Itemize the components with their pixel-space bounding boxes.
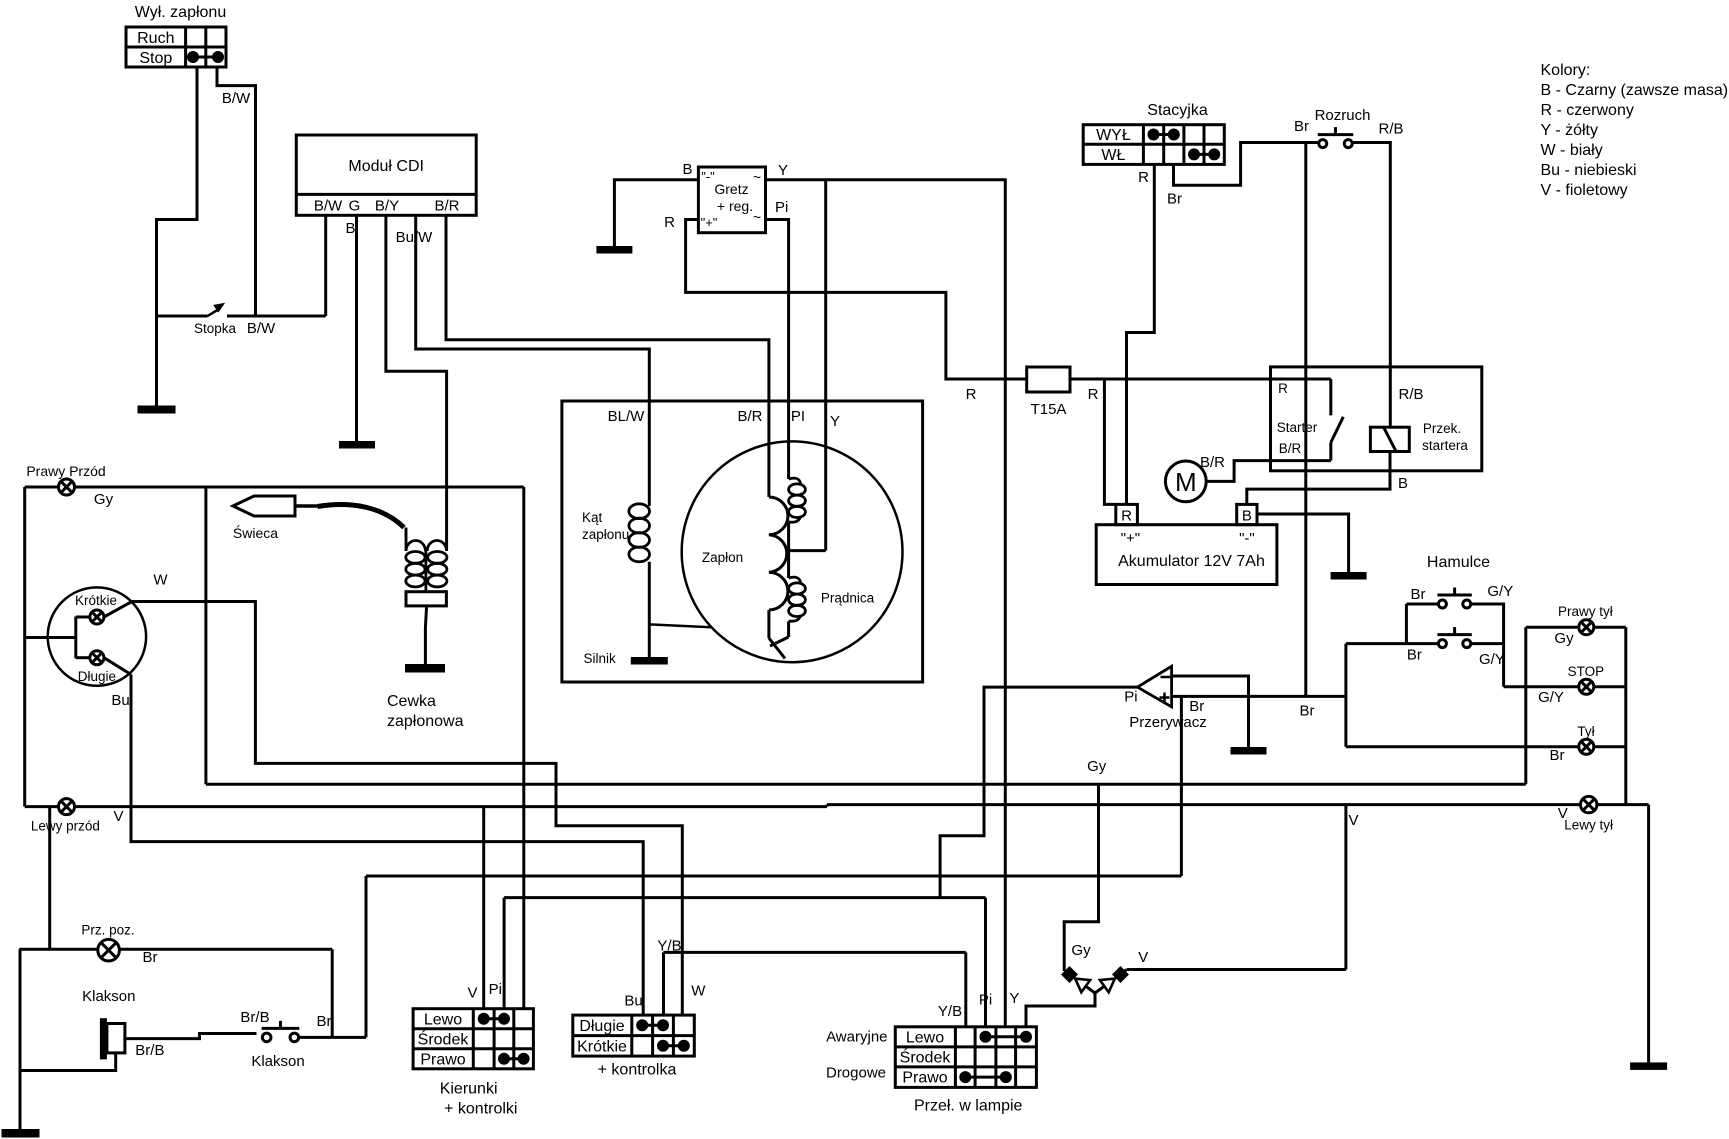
svg-text:Prawo: Prawo [902, 1070, 947, 1087]
svg-text:Rozruch: Rozruch [1315, 107, 1371, 124]
label Gy [1087, 758, 1107, 775]
wire Br plus drop to horn run [1180, 696, 1183, 876]
svg-text:Pi: Pi [775, 199, 788, 216]
label V [1348, 812, 1358, 829]
wire Bu high beam to switch table [131, 675, 643, 1016]
label V [1138, 949, 1148, 966]
relay coil K1 [1370, 427, 1409, 451]
svg-text:Zapłon: Zapłon [702, 550, 743, 565]
label G/Y [1538, 689, 1564, 706]
wire cable to coil [405, 528, 408, 542]
switch S1 Wył. zapłonu (Ruch/Stop table) [126, 27, 226, 67]
lamp E4 Lewy przód [59, 799, 75, 815]
svg-text:+ kontrolki: + kontrolki [444, 1101, 517, 1118]
svg-text:Y/B: Y/B [938, 1003, 962, 1020]
label Prawy Przód [26, 463, 105, 479]
svg-text:B/W: B/W [247, 320, 276, 337]
svg-text:R: R [1121, 508, 1132, 525]
coil L3 Prądnica upper [789, 478, 806, 522]
wire Pi flasher output [940, 687, 1137, 898]
contacts Krótkie row [657, 1040, 690, 1052]
label Prawy tył [1558, 604, 1613, 619]
svg-text:Prądnica: Prądnica [821, 591, 875, 606]
svg-text:PI: PI [791, 408, 805, 425]
svg-text:Tył: Tył [1577, 724, 1594, 739]
magneto flywheel circle [682, 441, 903, 662]
wire Gy front top run [25, 486, 524, 489]
svg-text:Br: Br [1407, 647, 1422, 664]
wire Br down to przerywacz plus [1304, 143, 1307, 697]
label Tył [1577, 724, 1594, 739]
coil L2 Zapłon source [769, 497, 788, 610]
lamp E9 Lewy tył [1581, 796, 1597, 812]
wire Br link sw1 to sw2 [1406, 604, 1438, 644]
ground bottom left [2, 1129, 40, 1138]
svg-text:Br: Br [317, 1013, 332, 1030]
diode D2 [1095, 966, 1129, 993]
wire BL/W below pickup to ground [648, 562, 651, 657]
switch S9 Przeł. w lampie table [895, 1027, 1036, 1088]
svg-text:Lewy tył: Lewy tył [1564, 818, 1613, 833]
label Świeca [233, 524, 278, 541]
contacts kierunki Prawo [498, 1053, 530, 1065]
wire headlight lamp outputs [104, 602, 132, 675]
wire horn to switch [125, 1034, 257, 1039]
wire B/R motor to relay contact [1206, 461, 1331, 482]
svg-text:Br: Br [1167, 191, 1182, 208]
relay K1 Przek. startera box [1271, 367, 1482, 471]
label B [682, 161, 692, 178]
label Y/B [657, 938, 681, 955]
svg-text:+ kontrolka: + kontrolka [598, 1062, 677, 1079]
svg-text:M: M [1175, 467, 1197, 497]
svg-text:Krótkie: Krótkie [577, 1039, 627, 1056]
wire V long run [25, 805, 1649, 807]
labels Bu W [624, 983, 706, 1010]
svg-text:Akumulator 12V 7Ah: Akumulator 12V 7Ah [1118, 553, 1265, 570]
switch S4 Klakson pushbutton [262, 1021, 300, 1042]
switch S7 Kierunki table [413, 1009, 533, 1069]
svg-text:WYŁ: WYŁ [1096, 127, 1131, 144]
svg-text:Ruch: Ruch [137, 30, 174, 47]
relay contact upper lead [1329, 379, 1332, 415]
wire spine between generator coils [787, 522, 790, 578]
wire B/W from S1 to ground/stopka [157, 67, 198, 406]
svg-text:Bu - niebieski: Bu - niebieski [1541, 162, 1637, 179]
svg-text:Br: Br [1294, 118, 1309, 135]
wire CDI pin B/Y to ignition coil [386, 215, 447, 550]
label T15A R R [966, 386, 1099, 418]
svg-text:Br/B: Br/B [135, 1042, 164, 1059]
svg-text:+ reg.: + reg. [717, 198, 753, 214]
wire B battery minus to ground [1257, 514, 1349, 572]
switch S3 Rozruch pushbutton [1318, 127, 1354, 148]
svg-text:Prawy Przód: Prawy Przód [26, 463, 105, 479]
wire left down to ground [19, 949, 22, 1129]
switch S5 brake front [1437, 588, 1471, 609]
label Silnik [584, 651, 617, 666]
switch S2 WYŁ contacts [1148, 129, 1180, 141]
ground bottom right [1630, 1062, 1667, 1070]
svg-text:G: G [349, 198, 361, 215]
wire rear lamps return [1624, 627, 1627, 804]
legend Kolory [1541, 62, 1729, 199]
labels Pi Przerywacz [1124, 689, 1207, 732]
wire Pi to kierunki table [503, 898, 506, 1009]
svg-text:zapłonu: zapłonu [582, 527, 629, 542]
switch S1 Stop contacts closed [187, 51, 224, 63]
svg-text:startera: startera [1422, 438, 1468, 453]
wire Pi to lamp switch table [984, 898, 987, 1027]
label B [1398, 475, 1408, 492]
svg-text:Przeł. w lampie: Przeł. w lampie [914, 1098, 1023, 1115]
wire coil to ground [425, 606, 426, 664]
svg-text:W: W [691, 983, 706, 1000]
wire headlight common feed [25, 617, 90, 659]
svg-text:Drogowe: Drogowe [826, 1065, 886, 1082]
svg-text:"+": "+" [701, 215, 718, 230]
labels Zapłon Prądnica [702, 550, 875, 606]
svg-text:Prawy tył: Prawy tył [1558, 604, 1613, 619]
label Bu [111, 692, 129, 709]
label Lewy przód [31, 819, 100, 834]
svg-text:STOP: STOP [1568, 664, 1605, 679]
wire CDI pin B/W down [324, 215, 327, 316]
svg-text:Kolory:: Kolory: [1541, 62, 1591, 79]
labels V Pi [467, 981, 501, 1002]
svg-text:Gy: Gy [1087, 758, 1107, 775]
ground at stopka wire [138, 406, 176, 414]
diode D1 [1061, 966, 1095, 993]
svg-text:Wył. zapłonu: Wył. zapłonu [135, 4, 226, 21]
wire Y from Gretz to lamp switch [766, 180, 1006, 1027]
svg-text:Lewy przód: Lewy przód [31, 819, 100, 834]
wire Br stacyjka to rozruch [1174, 143, 1318, 186]
svg-text:Br: Br [1189, 698, 1204, 715]
label Br [1550, 747, 1565, 764]
wire stopka horizontal B/W [157, 315, 326, 318]
label Prz. poz. [81, 923, 134, 938]
svg-text:Stopka: Stopka [194, 321, 237, 336]
ground at ignition coil [405, 664, 445, 673]
wire CDI pin Bu/W to pickup BL/W [416, 215, 650, 503]
wire Br long run to przerywacz [366, 875, 1181, 878]
switch S2 WŁ contacts [1188, 148, 1220, 160]
label Klakson [82, 988, 135, 1005]
ground at CDI G [339, 441, 375, 449]
wire R from fuse to starter relay [1070, 378, 1331, 381]
svg-text:zapłonowa: zapłonowa [387, 713, 464, 730]
ground Silnik [631, 657, 668, 665]
svg-text:Moduł CDI: Moduł CDI [348, 158, 424, 175]
ground at Gretz minus [596, 246, 632, 254]
labels Br Br [1189, 698, 1314, 720]
svg-text:B/Y: B/Y [375, 198, 399, 215]
svg-text:B: B [345, 220, 355, 237]
svg-text:Przek.: Przek. [1423, 421, 1461, 436]
label Y [778, 162, 788, 179]
svg-text:Gy: Gy [94, 491, 114, 508]
switch Stopka (side-stand) blade [207, 304, 224, 317]
wire B relay coil to battery minus [1247, 452, 1390, 505]
label Kąt zapłonu [582, 510, 629, 542]
svg-text:B/W: B/W [222, 90, 251, 107]
svg-text:Środek: Środek [900, 1048, 952, 1067]
svg-text:Prz. poz.: Prz. poz. [81, 923, 134, 938]
battery BT1 Akumulator 12V 7Ah [1096, 504, 1277, 584]
coil L4 Prądnica lower [789, 577, 806, 621]
svg-text:R - czerwony: R - czerwony [1541, 102, 1634, 119]
wire V to kierunki table [482, 807, 485, 1009]
label V [113, 808, 123, 825]
flasher U3 Przerywacz triangle [1137, 666, 1171, 707]
wire Gy long bottom run [206, 783, 1526, 786]
horn LS1 Klakson speaker [100, 1018, 125, 1059]
wire B/R below Zapłon coil to flywheel [769, 610, 785, 659]
label + kontrolka [598, 1062, 677, 1079]
wire G/Y brake outputs [1471, 604, 1504, 687]
svg-text:Długie: Długie [78, 669, 116, 684]
svg-text:V: V [1348, 812, 1358, 829]
svg-text:R/B: R/B [1398, 386, 1423, 403]
wire Gy riser [1524, 627, 1527, 784]
svg-text:Lewo: Lewo [906, 1030, 944, 1047]
wire Br feed brakes [1346, 644, 1438, 747]
label Gy [1554, 630, 1574, 647]
svg-text:R: R [1138, 169, 1149, 186]
svg-text:Starter: Starter [1277, 420, 1318, 435]
svg-text:"-": "-" [701, 169, 715, 184]
contacts lamp switch Prawo [959, 1071, 1012, 1083]
contacts lamp switch Lewo [980, 1031, 1033, 1043]
svg-text:Długie: Długie [579, 1018, 624, 1035]
labels Y/B Pi Y [938, 990, 1020, 1020]
svg-text:Przerywacz: Przerywacz [1129, 714, 1207, 731]
svg-text:Stacyjka: Stacyjka [1147, 102, 1208, 119]
label Pi [775, 199, 788, 216]
wire R stacyjka to battery plus [1127, 164, 1155, 504]
labels inside relay [1277, 381, 1469, 456]
svg-text:W - biały: W - biały [1541, 142, 1603, 159]
label R [664, 214, 675, 231]
svg-text:WŁ: WŁ [1101, 147, 1125, 164]
svg-text:B/R: B/R [1200, 454, 1225, 471]
contacts kierunki Lewo [478, 1013, 510, 1025]
motor M1 starter [1165, 461, 1206, 502]
ground at battery [1331, 572, 1367, 580]
svg-text:B: B [682, 161, 692, 178]
svg-text:Br: Br [1550, 747, 1565, 764]
svg-text:Bu/W: Bu/W [396, 229, 434, 246]
svg-text:Y: Y [830, 413, 840, 430]
relay contact blade [1331, 417, 1344, 461]
lamp E5 Prz. poz. [98, 939, 120, 961]
svg-text:Bu: Bu [624, 993, 642, 1010]
coil L1 Kąt zapłonu pickup [629, 504, 650, 562]
svg-text:Pi: Pi [489, 981, 502, 998]
wire CDI pin B/R to magneto [446, 215, 769, 497]
label B/W [222, 90, 251, 107]
svg-text:V: V [1138, 949, 1148, 966]
svg-text:Środek: Środek [418, 1030, 470, 1049]
svg-text:G/Y: G/Y [1479, 651, 1505, 668]
ground at flasher [1231, 747, 1267, 755]
svg-text:W: W [153, 572, 168, 589]
wire lamp to Prz.poz run [48, 807, 51, 950]
wire G/Y to STOP lamp [1504, 685, 1626, 688]
svg-text:R: R [1088, 386, 1099, 403]
svg-text:Br: Br [1300, 703, 1315, 720]
wire Pi from Gretz to magneto [766, 220, 789, 480]
svg-text:Lewo: Lewo [424, 1012, 462, 1029]
wire Pi distribution run [504, 896, 985, 899]
label W [153, 572, 168, 589]
svg-text:Gretz: Gretz [714, 181, 748, 197]
svg-text:"+": "+" [1121, 530, 1140, 547]
svg-text:Awaryjne: Awaryjne [826, 1029, 887, 1046]
switch S8 Długie/Krótkie table [573, 1015, 695, 1056]
labels Krótkie Długie [75, 593, 117, 684]
wire CDI pin G to ground [355, 215, 358, 441]
label Br [143, 949, 158, 966]
svg-text:B/W: B/W [314, 198, 343, 215]
svg-text:Br/B: Br/B [240, 1009, 269, 1026]
lamp E7 STOP [1579, 679, 1594, 694]
svg-text:V - fioletowy: V - fioletowy [1541, 182, 1628, 199]
svg-text:R/B: R/B [1378, 121, 1403, 138]
svg-text:G/Y: G/Y [1538, 689, 1564, 706]
labels brake sw2 [1407, 647, 1505, 669]
svg-text:R: R [1278, 381, 1288, 396]
lamps E2 E3 low/high beam [90, 610, 104, 665]
svg-text:Hamulce: Hamulce [1427, 554, 1490, 571]
svg-text:Y - żółty: Y - żółty [1541, 122, 1599, 139]
wire Br to Tył lamp [1346, 745, 1626, 748]
svg-text:B/R: B/R [434, 198, 459, 215]
wire horn return to ground [20, 1053, 116, 1071]
wire Gy to Prawy tył [1526, 626, 1626, 629]
label Hamulce [1427, 554, 1490, 571]
svg-text:Gy: Gy [1554, 630, 1574, 647]
rectifier U2 Gretz + reg. [698, 167, 765, 233]
label Gy [1071, 942, 1091, 959]
svg-text:BL/W: BL/W [608, 408, 646, 425]
wire Br Prz.poz horizontal [19, 948, 332, 951]
label R Br [1138, 169, 1182, 208]
wire Gy box left side [204, 487, 207, 784]
svg-text:Silnik: Silnik [584, 651, 617, 666]
svg-text:B/R: B/R [1279, 441, 1302, 456]
switch S6 brake rear [1437, 627, 1471, 648]
svg-text:Gy: Gy [1071, 942, 1091, 959]
svg-text:T15A: T15A [1031, 401, 1067, 418]
wire diodes to lamp switch col4 [1026, 993, 1095, 1027]
svg-text:V: V [467, 985, 477, 1002]
label STOP [1568, 664, 1605, 679]
svg-text:R: R [966, 386, 977, 403]
svg-text:Klakson: Klakson [82, 988, 135, 1005]
wire R to battery plus [1104, 379, 1115, 504]
contacts Długie row [636, 1019, 669, 1031]
svg-text:Y: Y [778, 162, 788, 179]
svg-text:V: V [113, 808, 123, 825]
wire V to diode D2 [1121, 805, 1346, 975]
svg-text:~: ~ [753, 169, 761, 185]
label Br/B [135, 1042, 164, 1059]
svg-text:~: ~ [753, 209, 761, 225]
svg-text:"-": "-" [1239, 530, 1255, 547]
wire below Prądnica coil [770, 621, 789, 646]
svg-text:Klakson: Klakson [251, 1053, 304, 1070]
label B [345, 220, 355, 237]
labels Awaryjne Drogowe [826, 1029, 888, 1082]
lamp E8 Tył [1579, 739, 1594, 754]
svg-text:Krótkie: Krótkie [75, 593, 117, 608]
svg-text:Świeca: Świeca [233, 524, 278, 541]
labels brake sw1 [1411, 583, 1514, 603]
svg-text:Cewka: Cewka [387, 693, 436, 710]
fuse F1 T15A [1027, 367, 1070, 392]
spark plug Świeca [233, 496, 318, 516]
svg-text:Kąt: Kąt [582, 510, 603, 525]
label Gy [94, 491, 114, 508]
svg-text:B: B [1242, 508, 1252, 525]
svg-text:Pi: Pi [1124, 689, 1137, 706]
svg-text:Bu: Bu [111, 692, 129, 709]
wire Y into magneto to generator tap [789, 180, 826, 551]
label Kierunki + kontrolki [440, 1081, 518, 1118]
wire Br down to horn switch [331, 949, 334, 1037]
svg-text:Prawo: Prawo [420, 1052, 465, 1069]
label Bu/W [396, 229, 434, 246]
label Przeł. w lampie [914, 1098, 1023, 1115]
lamp E6 Prawy tył [1579, 620, 1594, 635]
label Stopka B/W [194, 320, 276, 337]
label Wył. zapłonu [135, 4, 226, 21]
wire B/W from S1 to stopka line [217, 67, 256, 316]
labels V Lewy tył [1558, 805, 1613, 833]
wire W low beam to switch table [132, 602, 682, 1016]
label B/R [1200, 454, 1225, 471]
svg-text:B: B [1398, 475, 1408, 492]
wire Gy box right side down to kierunki [522, 487, 525, 1009]
switch S2 Stacyjka table [1083, 125, 1224, 165]
svg-text:Br: Br [1411, 586, 1426, 603]
svg-text:B/R: B/R [737, 408, 762, 425]
wire engine block link to flywheel [649, 624, 711, 627]
labels Klakson switch [240, 1009, 331, 1070]
wire Y/B between switch tables [664, 952, 966, 1026]
svg-text:G/Y: G/Y [1487, 583, 1513, 600]
wire Gy to diode D1 [1064, 784, 1098, 971]
svg-text:R: R [664, 214, 675, 231]
wire Gretz minus to ground [614, 180, 698, 246]
wire left edge down [23, 487, 26, 807]
svg-text:Y: Y [1009, 990, 1019, 1007]
wire R/B rozruch to relay coil [1353, 143, 1391, 428]
lamp E1 Prawy Przód [59, 479, 75, 495]
wire R from Gretz plus to fuse [686, 220, 1027, 380]
headlight housing circle [48, 587, 146, 685]
svg-text:B - Czarny (zawsze masa): B - Czarny (zawsze masa) [1541, 82, 1729, 99]
label Cewka zapłonowa [387, 693, 464, 730]
svg-text:Kierunki: Kierunki [440, 1081, 498, 1098]
svg-text:Pi: Pi [979, 992, 992, 1009]
spark cable thick [318, 505, 405, 528]
label Rozruch Br R/B [1294, 107, 1404, 138]
IC U1 Moduł CDI [296, 135, 476, 215]
svg-text:Br: Br [143, 949, 158, 966]
